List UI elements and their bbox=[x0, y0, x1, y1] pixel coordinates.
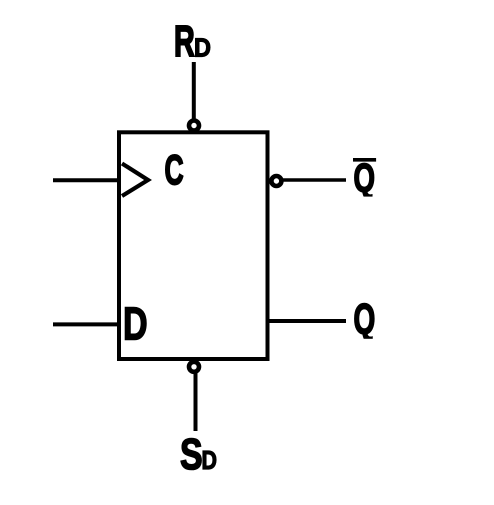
svg-text:Q: Q bbox=[354, 157, 375, 201]
svg-text:D: D bbox=[194, 35, 211, 63]
dynamic clock input triangle bbox=[122, 164, 148, 197]
active-low bubble on RD pin bbox=[189, 121, 199, 131]
active-low bubble on Qbar output bbox=[271, 176, 281, 186]
wire: data input D bbox=[53, 322, 119, 326]
svg-text:C: C bbox=[165, 147, 184, 194]
tail trim for Q glyph bbox=[349, 339, 379, 346]
active-low bubble on SD pin bbox=[189, 362, 199, 372]
tail trim for Qbar glyph bbox=[349, 197, 379, 203]
svg-text:D: D bbox=[123, 297, 148, 349]
label SD bbox=[180, 431, 217, 479]
svg-text:S: S bbox=[180, 431, 203, 479]
svg-text:Q: Q bbox=[354, 294, 376, 343]
label Qbar bbox=[353, 157, 376, 201]
flip-flop body U1 bbox=[119, 132, 268, 359]
svg-text:D: D bbox=[202, 446, 217, 474]
wire: Qbar output bbox=[283, 178, 346, 182]
wire: SD bottom lead bbox=[194, 373, 198, 431]
wire: RD top lead bbox=[192, 62, 196, 120]
wire: Q output bbox=[270, 319, 347, 323]
svg-text:R: R bbox=[174, 17, 195, 65]
wire: clock input C bbox=[53, 178, 119, 182]
label RD bbox=[174, 17, 211, 65]
